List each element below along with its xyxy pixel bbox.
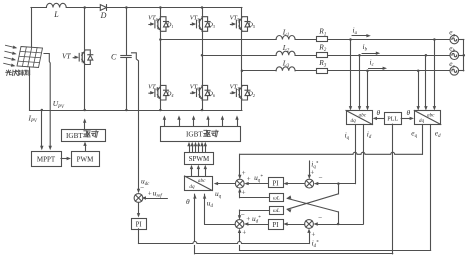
svg-text:SPWM: SPWM: [189, 155, 210, 163]
svg-text:+: +: [242, 169, 246, 177]
svg-text:−: −: [140, 184, 144, 192]
svg-text:−: −: [318, 174, 322, 182]
svg-text:+: +: [242, 229, 246, 237]
svg-text:IGBT: IGBT: [66, 132, 83, 140]
svg-text:D: D: [100, 11, 107, 20]
svg-text:θ: θ: [377, 108, 381, 117]
svg-text:dq: dq: [351, 118, 357, 124]
svg-text:C: C: [111, 53, 117, 62]
svg-text:+: +: [247, 175, 251, 183]
svg-text:dq: dq: [189, 184, 195, 190]
svg-text:abc: abc: [359, 112, 367, 118]
svg-text:VT: VT: [62, 52, 72, 61]
svg-text:−: −: [241, 211, 245, 219]
svg-text:abc: abc: [427, 112, 435, 118]
svg-text:−: −: [318, 214, 322, 222]
svg-text:+: +: [246, 215, 250, 223]
svg-text:L: L: [53, 10, 59, 19]
svg-text:θ: θ: [186, 197, 190, 206]
svg-text:abc: abc: [198, 178, 206, 184]
svg-text:+: +: [311, 231, 315, 239]
svg-text:PI: PI: [272, 222, 279, 229]
svg-text:PI: PI: [136, 222, 143, 229]
svg-text:+: +: [242, 189, 246, 197]
svg-text:PWM: PWM: [77, 156, 95, 164]
svg-text:ωL: ωL: [273, 208, 280, 214]
svg-text:dq: dq: [419, 118, 425, 124]
svg-text:+: +: [148, 189, 152, 197]
svg-text:PI: PI: [272, 180, 279, 187]
svg-text:IGBT: IGBT: [186, 130, 203, 138]
svg-text:θ: θ: [407, 108, 411, 117]
svg-text:ωL: ωL: [273, 196, 280, 202]
svg-text:MPPT: MPPT: [37, 156, 56, 164]
svg-text:PLL: PLL: [387, 116, 398, 123]
